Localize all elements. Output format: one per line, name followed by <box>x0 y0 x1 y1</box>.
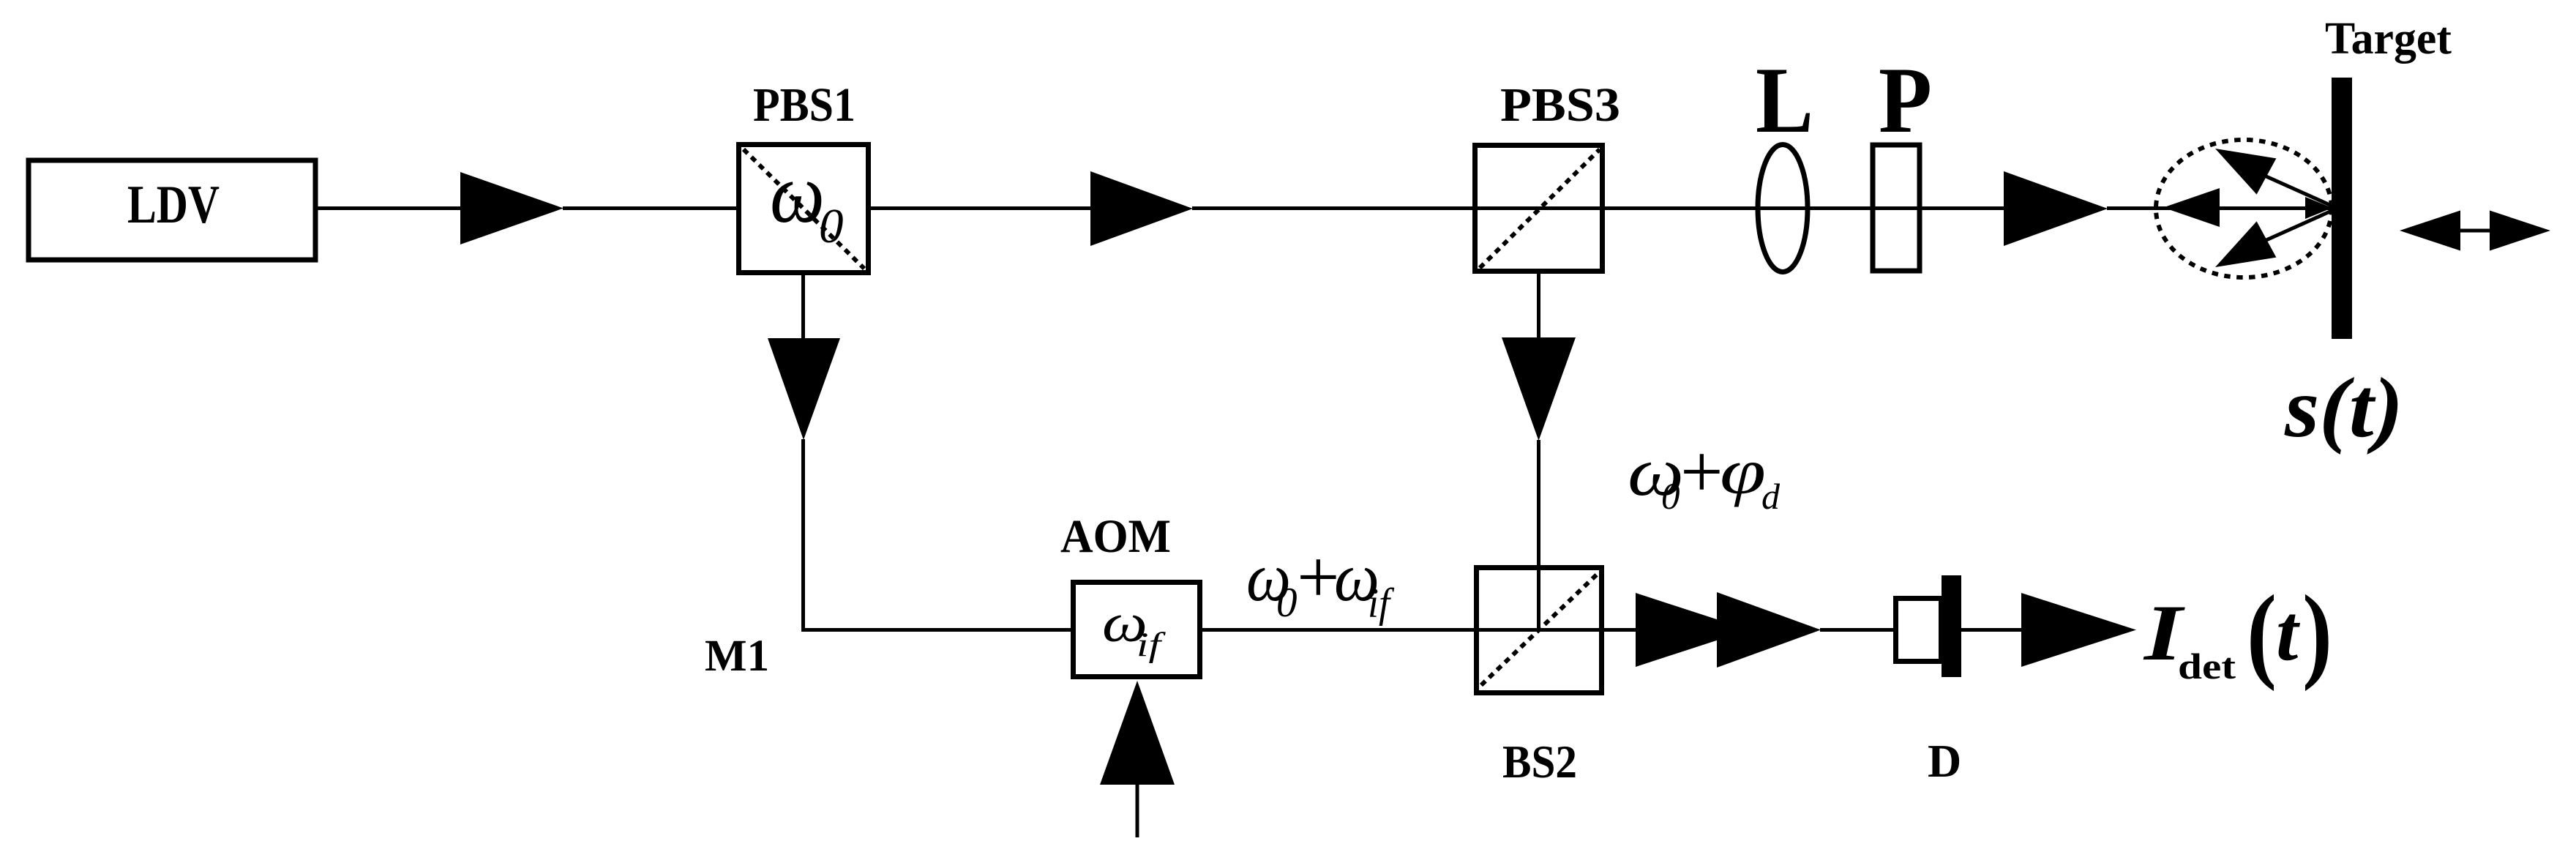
dashed scatter ellipse <box>2156 140 2332 277</box>
detector D plate <box>1942 575 1961 677</box>
lens L <box>1758 145 1808 272</box>
beam splitter PBS1 <box>739 145 869 273</box>
arrowhead beam arrow 2 <box>1090 171 1193 246</box>
dashed diagonal PBS1 <box>744 149 864 269</box>
arrowhead scatter upper <box>2215 149 2276 195</box>
svg-text:0: 0 <box>1661 477 1680 518</box>
wire PBS3 down <box>1537 271 1540 338</box>
wire through BS2 <box>1474 628 1636 632</box>
svg-text:(: ( <box>2247 573 2277 692</box>
svg-text:D: D <box>1928 735 1961 787</box>
arrowhead output arrow A <box>1636 593 1749 667</box>
svg-text:det: det <box>2178 646 2236 687</box>
wire arrow3 to target <box>2107 206 2332 210</box>
arrowhead output arrow B <box>1717 592 1821 668</box>
svg-text:PBS3: PBS3 <box>1500 78 1620 132</box>
svg-text:ω: ω <box>770 146 825 241</box>
svg-text:t: t <box>2276 589 2300 677</box>
wire PBS1 down <box>801 273 805 339</box>
laser box LDV <box>29 160 315 260</box>
svg-text:d: d <box>1761 476 1781 517</box>
modulator AOM <box>1074 583 1200 677</box>
arrowhead beam arrow 3 <box>2004 171 2108 246</box>
beam splitter BS2 <box>1477 568 1602 693</box>
svg-text:0: 0 <box>1276 580 1298 626</box>
svg-text:L: L <box>1756 48 1813 152</box>
svg-text:Target: Target <box>2325 12 2452 64</box>
svg-text:φ: φ <box>1720 437 1766 508</box>
arrowhead incident at target (small) <box>2305 197 2332 219</box>
beam splitter PBS3 <box>1475 146 1603 272</box>
svg-text:s(t): s(t) <box>2284 361 2403 455</box>
wire detector to arrow <box>1961 628 2022 632</box>
svg-text:BS2: BS2 <box>1502 736 1577 788</box>
wire to detector <box>1820 628 1895 632</box>
wire RF drive <box>1136 784 1139 837</box>
polarizer P <box>1873 145 1920 271</box>
wire arrow2 through PBS3 to arrow3 <box>1192 206 2004 210</box>
svg-text:M1: M1 <box>705 632 769 681</box>
wire PBS1 to arrow2 <box>869 206 1091 210</box>
svg-text:): ) <box>2302 573 2332 692</box>
scatter ray upper line <box>2261 174 2332 206</box>
svg-text:LDV: LDV <box>127 175 220 235</box>
wire arrow1 to PBS1 <box>563 206 738 210</box>
arrowhead down from PBS3 <box>1502 337 1576 441</box>
dashed diagonal BS2 <box>1481 572 1600 685</box>
arrowhead RF drive into AOM <box>1100 681 1175 785</box>
arrowhead scatter lower <box>2215 221 2276 267</box>
svg-text:0: 0 <box>819 199 844 253</box>
arrowhead output arrow C <box>2021 593 2136 667</box>
svg-text:P: P <box>1879 48 1932 152</box>
wire LDV to arrow1 <box>318 206 461 210</box>
arrowhead beam arrow 1 <box>460 172 563 244</box>
dashed diagonal PBS3 <box>1480 149 1600 268</box>
arrowhead down from PBS1 <box>768 338 840 440</box>
wire PBS3-branch into BS2 <box>1537 440 1540 630</box>
svg-text:PBS1: PBS1 <box>753 78 855 132</box>
svg-text:AOM: AOM <box>1060 510 1171 563</box>
scatter ray lower line <box>2261 211 2332 242</box>
vibration double arrow <box>2459 229 2491 233</box>
wire AOM to BS2 <box>1200 628 1475 632</box>
svg-text:+: + <box>1680 430 1723 514</box>
arrowhead reflected beam (left) <box>2163 188 2220 227</box>
wire mirror path M1 <box>804 439 1072 630</box>
svg-text:+: + <box>1297 535 1340 619</box>
target bar <box>2332 78 2352 339</box>
detector D square <box>1896 599 1942 662</box>
